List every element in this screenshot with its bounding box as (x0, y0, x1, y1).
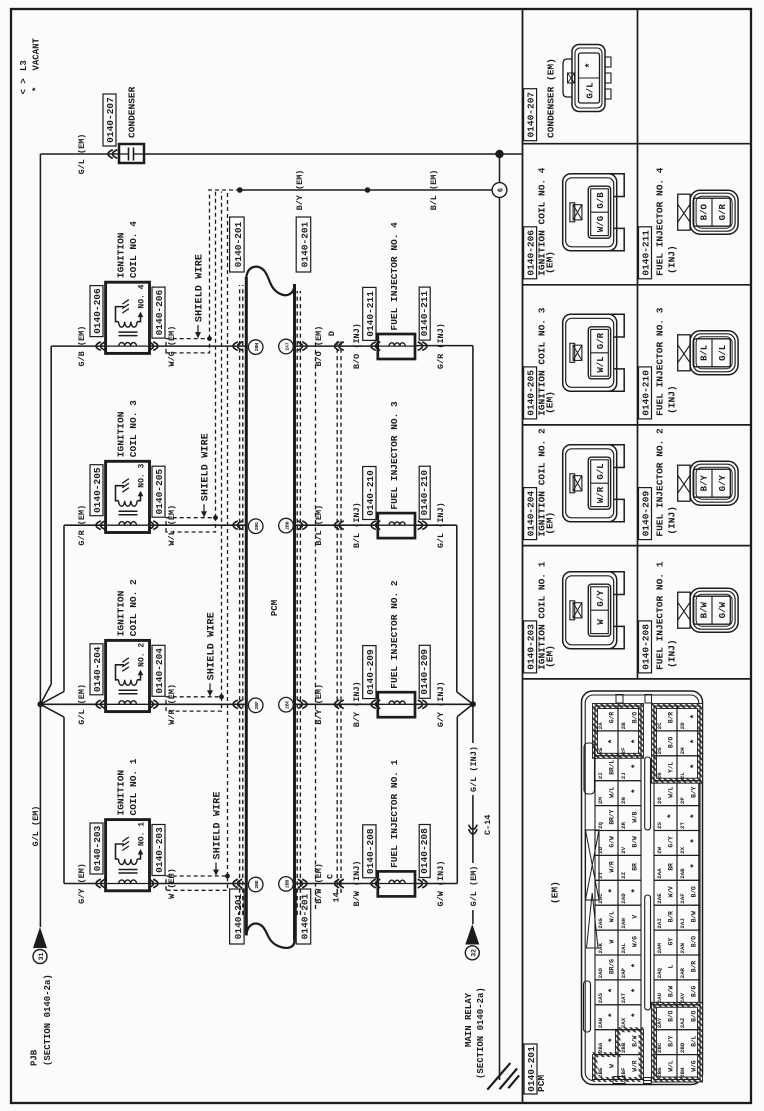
wire injector 4 to common bus (415, 345, 473, 347)
svg-text:*: * (631, 1012, 641, 1017)
svg-text:NO. 2: NO. 2 (138, 643, 147, 667)
svg-text:2AN: 2AN (679, 943, 686, 954)
svg-text:NO. 1: NO. 1 (138, 822, 147, 846)
svg-text:2AB: 2AB (679, 868, 686, 879)
svg-text:*: * (631, 788, 641, 793)
svg-text:G/L (EM): G/L (EM) (469, 866, 479, 907)
svg-text:G/L (INJ): G/L (INJ) (469, 746, 479, 792)
svg-text:*: * (690, 714, 700, 719)
svg-text:*: * (631, 739, 641, 744)
svg-text:B/Y: B/Y (668, 1035, 675, 1046)
legend L3 / VACANT (19, 37, 41, 94)
injector common fan node (470, 701, 476, 707)
label box 0140-209 lower (419, 645, 430, 698)
svg-text:0140-201: 0140-201 (300, 221, 311, 267)
connector chevrons injector 2 upper (371, 700, 380, 709)
svg-text:*: * (690, 764, 700, 769)
svg-text:B/O: B/O (632, 712, 639, 723)
svg-text:W: W (596, 619, 606, 625)
wire coil 1 to PCM (150, 883, 247, 885)
svg-text:(EM): (EM) (550, 881, 561, 904)
svg-text:FUEL INJECTOR NO. 2: FUEL INJECTOR NO. 2 (389, 580, 400, 689)
svg-text:B/O (EM): B/O (EM) (314, 326, 324, 367)
svg-text:0140-207: 0140-207 (105, 97, 116, 143)
svg-text:2AQ: 2AQ (656, 967, 663, 978)
wire G/L(EM) main bus (39, 154, 41, 927)
svg-text:B/O: B/O (668, 737, 675, 748)
PCM connector band bottom line (293, 284, 296, 941)
svg-text:W/L: W/L (596, 356, 606, 372)
wire coil 2 to PCM (150, 703, 247, 705)
injector 2 winding symbol (378, 701, 415, 704)
svg-text:IGNITION: IGNITION (116, 590, 127, 636)
PCM connector top slots (584, 743, 595, 794)
svg-text:W/V: W/V (668, 886, 675, 897)
wire injector 2 from PCM (295, 703, 378, 705)
svg-text:2BB: 2BB (620, 1042, 627, 1053)
table sub-divider coils/injectors (637, 9, 639, 679)
svg-text:W: W (609, 1064, 616, 1068)
label box 0140-205 upper (90, 465, 103, 516)
svg-text:COIL NO. 4: COIL NO. 4 (128, 221, 139, 278)
svg-text:Y/L: Y/L (668, 761, 675, 772)
svg-text:*: * (608, 888, 618, 893)
coil 1 internal symbol (106, 822, 150, 884)
wire coil 4 feed corner (51, 345, 105, 347)
svg-text:COIL NO. 1: COIL NO. 1 (128, 758, 139, 815)
wire shield drain merge (dashed) (208, 189, 240, 191)
wire B/Y(EM) vertical (240, 189, 368, 191)
svg-text:(SECTION 0140-2a): (SECTION 0140-2a) (476, 987, 486, 1079)
wire coil 2 feed corner (40, 703, 105, 705)
svg-text:VACANT: VACANT (31, 37, 41, 70)
junction node condenser-to-ground line (495, 150, 503, 158)
svg-text:2S: 2S (656, 822, 663, 829)
svg-text:0140-201: 0140-201 (233, 221, 244, 267)
svg-text:2U: 2U (597, 846, 604, 853)
table cell: fuel injector no.2 connector (639, 428, 739, 540)
svg-text:W/R: W/R (609, 861, 616, 872)
svg-text:*: * (631, 888, 641, 893)
svg-text:MAIN RELAY: MAIN RELAY (464, 992, 474, 1047)
svg-text:IGNITION: IGNITION (116, 770, 127, 816)
svg-text:B/G: B/G (691, 986, 698, 997)
svg-text:B/L: B/L (700, 345, 710, 361)
connector chevrons injector 1 below PCM (298, 879, 307, 888)
label box 0140-210 upper (363, 467, 376, 520)
svg-text:*: * (690, 813, 700, 818)
svg-text:B/Y: B/Y (700, 474, 710, 491)
svg-text:2BE: 2BE (254, 880, 260, 889)
node circle 6 junction (492, 183, 507, 198)
ignition coil no.4 box (106, 282, 150, 353)
svg-text:W/G: W/G (691, 1060, 698, 1071)
label box 0140-209 upper (363, 646, 376, 699)
table cell: ignition coil no.2 connector (524, 428, 625, 540)
connector chevrons coil 3 upper (96, 521, 105, 530)
svg-text:0140-210: 0140-210 (365, 470, 376, 516)
svg-text:B/Y: B/Y (691, 786, 698, 797)
PCM connector outline (582, 691, 703, 1085)
svg-text:GY: GY (668, 938, 675, 946)
svg-text:2C: 2C (656, 722, 663, 729)
connector chevrons injector 4 below PCM (298, 342, 307, 351)
table cell: ignition coil no.3 connector (524, 307, 625, 419)
svg-text:2Y: 2Y (597, 871, 604, 878)
svg-text:B/O: B/O (668, 1010, 675, 1021)
svg-text:NO. 4: NO. 4 (138, 284, 147, 308)
PCM connector band top line (245, 277, 248, 935)
svg-text:FUEL INJECTOR NO. 4: FUEL INJECTOR NO. 4 (655, 167, 666, 276)
svg-text:*: * (608, 739, 618, 744)
svg-text:2M: 2M (597, 797, 604, 804)
table cell: ignition coil no.4 connector (524, 167, 625, 279)
svg-text:C: C (326, 874, 336, 879)
fuel injector no.4 box (378, 334, 415, 359)
table cell: ignition coil no.1 connector (524, 561, 625, 673)
injector 4 winding symbol (378, 343, 415, 346)
svg-text:FUEL INJECTOR NO. 2: FUEL INJECTOR NO. 2 (655, 428, 666, 537)
svg-text:SHIELD WIRE: SHIELD WIRE (201, 433, 212, 501)
svg-text:2BH: 2BH (254, 343, 260, 352)
svg-text:*: * (608, 1037, 618, 1042)
svg-text:*: * (667, 813, 677, 818)
PCM pin 2BB (279, 877, 294, 892)
svg-text:0140-201: 0140-201 (233, 893, 244, 939)
connector chevrons injector 3 upper (371, 521, 380, 530)
label IGNITION COIL NO. 2 (116, 579, 140, 636)
svg-text:(EM): (EM) (544, 645, 555, 668)
splice node (365, 187, 371, 193)
svg-text:L3: L3 (19, 60, 29, 71)
svg-text:B/L: B/L (691, 1035, 698, 1046)
svg-text:*: * (690, 838, 700, 843)
svg-text:0140-204: 0140-204 (525, 490, 536, 536)
svg-text:2AS: 2AS (597, 992, 604, 1003)
svg-text:2R: 2R (620, 822, 627, 829)
svg-text:0140-205: 0140-205 (92, 467, 103, 513)
connector chevrons injector 1 lower (418, 879, 427, 888)
label box 0140-211 upper (363, 287, 376, 340)
svg-text:BR: BR (668, 863, 675, 871)
svg-text:D: D (327, 331, 337, 336)
wire inj3 diagonal to fan (457, 692, 473, 704)
PCM band right S-curve end (246, 267, 294, 296)
PCM pin 2BE (248, 877, 263, 892)
svg-text:2H: 2H (679, 747, 686, 754)
svg-text:*: * (608, 1012, 618, 1017)
svg-text:2I: 2I (597, 772, 604, 779)
wire injector 3 from PCM (295, 524, 378, 526)
connector chevrons coil 4 upper (96, 342, 105, 351)
label box 0140-204 upper (90, 644, 103, 695)
wire injector 1 to common bus (415, 883, 457, 885)
svg-text:PCM: PCM (270, 600, 280, 616)
svg-text:G/R: G/R (718, 203, 728, 220)
svg-text:0140-208: 0140-208 (419, 828, 430, 874)
svg-text:0140-208: 0140-208 (365, 828, 376, 874)
dashed line injector harness (315, 341, 317, 909)
svg-text:W/L: W/L (668, 786, 675, 797)
connector chevrons coil 2 lower (149, 700, 158, 709)
label G/L (EM) inline (466, 863, 477, 910)
svg-text:V: V (632, 915, 639, 919)
connector chevrons injector 2 below PCM (298, 700, 307, 709)
PCM connector center rail slots (645, 895, 651, 1010)
svg-text:*: * (631, 988, 641, 993)
svg-text:G/L (EM): G/L (EM) (77, 134, 87, 175)
label box 0140-204 lower (152, 645, 165, 696)
svg-text:G/W: G/W (718, 601, 728, 618)
svg-text:BR/L: BR/L (609, 760, 616, 775)
connector chevrons coil 1 lower (149, 879, 158, 888)
svg-text:2N: 2N (620, 797, 627, 804)
svg-text:2W: 2W (656, 846, 663, 853)
svg-text:*: * (608, 988, 618, 993)
PCM pin 2BF (248, 698, 263, 713)
fuel injector no.2 box (378, 692, 415, 717)
svg-text:2AX: 2AX (620, 1017, 627, 1028)
svg-text:0140-209: 0140-209 (365, 649, 376, 695)
wire injector 1 from PCM (295, 883, 378, 885)
coil 2 internal symbol (106, 643, 150, 705)
svg-text:2AL: 2AL (620, 943, 627, 954)
svg-text:0140-208: 0140-208 (640, 624, 651, 670)
connector chevrons coil 3 at PCM (233, 521, 242, 530)
svg-text:W/L: W/L (609, 786, 616, 797)
svg-text:2D: 2D (679, 722, 686, 729)
svg-text:(SECTION 0140-2a): (SECTION 0140-2a) (43, 974, 53, 1066)
svg-text:IGNITION: IGNITION (116, 411, 127, 457)
svg-text:2AM: 2AM (656, 943, 663, 954)
connector chevrons injector 2 lower (418, 700, 427, 709)
shield drain dashed line coil 3 (215, 192, 217, 518)
connector chevron C-14 on relay bus (469, 825, 478, 834)
shield drain dashed line coil 1 (227, 192, 229, 877)
svg-text:0140-211: 0140-211 (365, 291, 376, 337)
svg-text:B/Y (INJ): B/Y (INJ) (352, 681, 362, 727)
svg-text:*: * (585, 62, 597, 68)
svg-text:G/R (EM): G/R (EM) (77, 505, 87, 546)
svg-text:2AH: 2AH (620, 918, 627, 929)
PCM pin 2A7 (279, 339, 294, 354)
svg-text:G/L: G/L (586, 82, 596, 98)
ignition coil no.2 box (106, 640, 150, 711)
svg-text:(INJ): (INJ) (667, 245, 678, 274)
svg-text:G/L (EM): G/L (EM) (77, 684, 87, 725)
wire injector 2 to common bus (415, 703, 473, 705)
svg-text:CONDENSER: CONDENSER (127, 86, 138, 138)
svg-text:2AY: 2AY (656, 1017, 663, 1028)
connector chevrons coil 1 at PCM (233, 879, 242, 888)
connector chevrons on condenser wire (108, 150, 117, 159)
shield wire dashed box coil 3 (166, 518, 216, 532)
capacitor (condenser) symbol (119, 144, 144, 163)
svg-text:W/L: W/L (609, 911, 616, 922)
svg-text:G/Y (EM): G/Y (EM) (77, 863, 87, 904)
svg-text:0140-206: 0140-206 (154, 289, 165, 335)
label box 0140-210 lower (419, 466, 430, 519)
svg-text:G/Y: G/Y (718, 474, 728, 491)
svg-text:0140-206: 0140-206 (92, 288, 103, 334)
svg-text:B/R: B/R (668, 911, 675, 922)
svg-text:2BF: 2BF (254, 701, 260, 710)
ground symbol (PCM ground, 777 hatch) (487, 1063, 519, 1090)
svg-text:BR: BR (632, 863, 639, 871)
svg-text:B/O (INJ): B/O (INJ) (352, 323, 362, 369)
svg-text:0140-204: 0140-204 (92, 646, 103, 692)
svg-text:SHIELD WIRE: SHIELD WIRE (195, 254, 206, 322)
wire injector 3 to common bus (415, 524, 457, 526)
svg-text:2BA: 2BA (597, 1042, 604, 1053)
PCM pin grid cells (595, 706, 700, 1080)
SHIELD WIRE callout coil 4 (195, 254, 206, 338)
fan junction node on bus (37, 701, 43, 707)
label PJB (SECTION 0140-2a) (30, 974, 54, 1066)
shield wire dashed box coil 2 (166, 697, 222, 711)
table cell: condenser connector (524, 45, 611, 141)
fuel injector no.3 box (378, 513, 415, 538)
connector chevrons coil 2 at PCM (233, 700, 242, 709)
label box 0140-211 lower (419, 287, 430, 340)
svg-text:0140-205: 0140-205 (525, 370, 536, 416)
wire coil 1 feed corner (64, 883, 106, 885)
label box 0140-205 lower (152, 466, 165, 517)
wire fan diagonal to coil 3 feed (40, 684, 51, 704)
svg-text:2AU: 2AU (656, 992, 663, 1003)
wire G/L(EM) relay bus (472, 704, 474, 924)
connector chevrons injector 4 lower (418, 342, 427, 351)
svg-text:FUEL INJECTOR NO. 3: FUEL INJECTOR NO. 3 (389, 401, 400, 510)
svg-text:2AJ: 2AJ (679, 918, 686, 928)
connector chevrons injector 3 below PCM (298, 521, 307, 530)
svg-text:SHIELD WIRE: SHIELD WIRE (207, 612, 218, 680)
svg-text:B/R: B/R (691, 961, 698, 972)
svg-text:0140-211: 0140-211 (419, 290, 430, 336)
svg-text:B/W: B/W (632, 836, 639, 847)
fuel injector no.1 box (378, 871, 415, 896)
svg-text:0140-204: 0140-204 (154, 648, 165, 694)
svg-text:2AA: 2AA (656, 868, 663, 879)
PCM connector X-brace (586, 830, 600, 900)
connector chevrons injector 4 upper (371, 342, 380, 351)
label box 0140-203 upper (90, 823, 103, 874)
connector chevrons coil 4 lower (149, 342, 158, 351)
svg-text:2BC: 2BC (284, 700, 290, 709)
wire circle6 to condenser-drop dot (499, 154, 501, 183)
svg-text:G/B (EM): G/B (EM) (77, 326, 87, 367)
SHIELD WIRE callout coil 3 (201, 433, 212, 517)
svg-text:32: 32 (470, 949, 477, 957)
svg-text:B/L (INJ): B/L (INJ) (352, 502, 362, 548)
connector chevrons injector 2 at C-14 (335, 700, 344, 709)
svg-text:0140-205: 0140-205 (154, 469, 165, 515)
shield wire dashed box coil 4 (166, 339, 210, 353)
node MAIN RELAY source: circle 32 (465, 946, 479, 960)
label box 0140-203 lower (152, 825, 165, 876)
shield drain node coil 3 (213, 515, 218, 520)
svg-text:2BD: 2BD (679, 1042, 686, 1053)
svg-text:COIL NO. 3: COIL NO. 3 (128, 400, 139, 457)
svg-text:(EM): (EM) (544, 391, 555, 414)
svg-text:B/W: B/W (632, 1035, 639, 1046)
label box 0140-206 upper (90, 286, 103, 337)
labels 0140-201 at band ends (230, 889, 245, 944)
svg-text:2P: 2P (679, 797, 686, 804)
svg-text:2Q: 2Q (597, 822, 604, 829)
svg-text:2AR: 2AR (679, 967, 686, 978)
svg-text:W/G: W/G (596, 216, 606, 232)
svg-text:2BG: 2BG (656, 1067, 663, 1078)
svg-text:B/Y (EM): B/Y (EM) (314, 684, 324, 725)
svg-text:SHIELD WIRE: SHIELD WIRE (213, 791, 224, 859)
svg-text:IGNITION: IGNITION (116, 232, 127, 278)
svg-text:CONDENSER (EM): CONDENSER (EM) (546, 58, 557, 138)
connector chevrons coil 1 upper (96, 879, 105, 888)
svg-text:G/B: G/B (596, 192, 606, 209)
svg-text:L: L (668, 964, 675, 968)
shield dashed pair above PCM band (239, 285, 241, 915)
wire injector bus from fan to injector 4 corner (472, 346, 474, 705)
shield wire dashed box coil 1 (166, 876, 228, 890)
svg-text:0140-209: 0140-209 (419, 649, 430, 695)
label box 0140-208 lower (419, 825, 430, 878)
label IGNITION COIL NO. 4 (116, 221, 140, 278)
wire coil 4 to PCM (150, 345, 247, 347)
wire inj1 diagonal to fan (457, 704, 473, 717)
svg-text:B/W: B/W (700, 601, 710, 618)
svg-text:2X: 2X (679, 846, 686, 853)
svg-text:B/W: B/W (668, 986, 675, 997)
svg-text:W: W (609, 939, 616, 943)
svg-text:NO. 3: NO. 3 (138, 463, 147, 487)
table cell: fuel injector no.3 connector (639, 307, 739, 419)
svg-text:2AO: 2AO (597, 967, 604, 978)
svg-text:2L: 2L (679, 772, 686, 779)
svg-text:0140-211: 0140-211 (640, 230, 651, 276)
svg-text:2G: 2G (656, 747, 663, 754)
PCM band left S-curve end (246, 923, 294, 947)
PCM pin 2BG (248, 519, 263, 534)
svg-text:2BG: 2BG (254, 522, 260, 531)
svg-text:2AG: 2AG (597, 918, 604, 929)
svg-text:(INJ): (INJ) (667, 385, 678, 414)
svg-text:*: * (690, 739, 700, 744)
label box 0140-206 lower (152, 287, 165, 338)
svg-text:W/R: W/R (632, 1060, 639, 1071)
svg-text:2T: 2T (679, 822, 686, 829)
wire condenser drop at x=957 (40, 153, 119, 155)
svg-text:2BB: 2BB (284, 880, 290, 889)
svg-text:W (EM): W (EM) (167, 868, 177, 899)
label G/L (INJ) inline (466, 743, 477, 795)
svg-text:PCM: PCM (536, 1075, 547, 1092)
svg-text:G/W: G/W (609, 836, 616, 847)
svg-text:(EM): (EM) (544, 512, 555, 535)
svg-text:BR/Y: BR/Y (609, 809, 616, 824)
svg-text:2B: 2B (620, 722, 627, 729)
svg-text:0140-210: 0140-210 (419, 470, 430, 516)
wire PCM ground run y=499.5 (499, 197, 501, 1080)
svg-text:2E: 2E (597, 747, 604, 754)
SHIELD WIRE callout coil 1 (213, 791, 224, 875)
table verticals (523, 678, 752, 680)
svg-text:W/L: W/L (668, 1060, 675, 1071)
connector chevrons injector 1 upper (371, 879, 380, 888)
svg-text:2AT: 2AT (620, 992, 627, 1003)
svg-text:0140-210: 0140-210 (640, 370, 651, 416)
svg-text:2A7: 2A7 (284, 342, 290, 351)
